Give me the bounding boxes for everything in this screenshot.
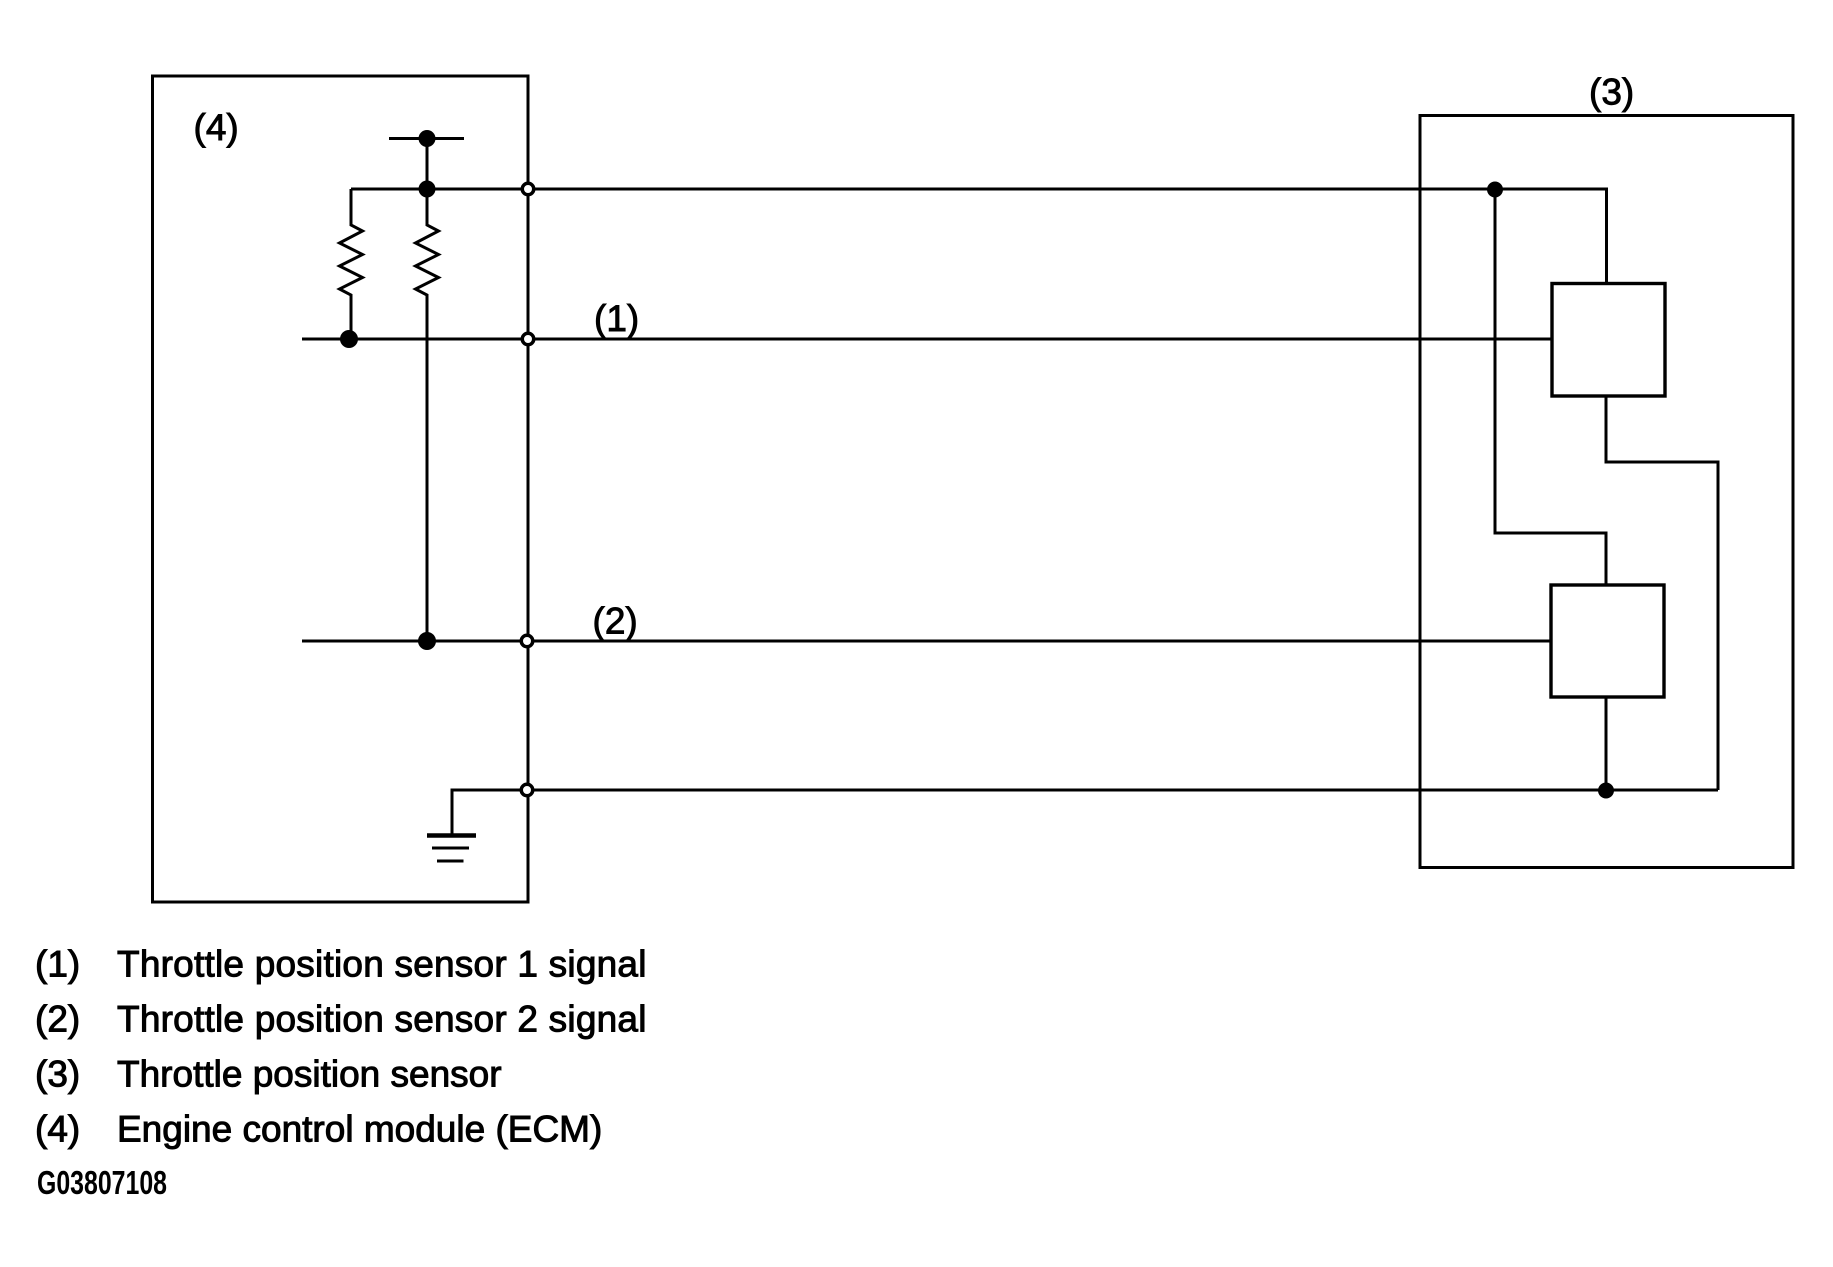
svg-text:Throttle position sensor 2 sig: Throttle position sensor 2 signal (117, 999, 647, 1040)
connector pin circle signal 1 (522, 333, 534, 345)
svg-text:Engine control module (ECM): Engine control module (ECM) (117, 1109, 602, 1150)
wire signal 1 (302, 338, 1552, 341)
wire Vref stub vertical (426, 139, 429, 190)
svg-text:(4): (4) (194, 107, 239, 148)
sensor element 2 square (1551, 585, 1664, 697)
wire Vref stub (389, 137, 464, 140)
junction dot Vref (419, 181, 436, 198)
wire sensor 1 bottom (1606, 396, 1718, 790)
connector pin circle Vref (522, 183, 534, 195)
connector pin circle ground (521, 784, 533, 796)
sensor element 1 square (1552, 284, 1665, 397)
wire Vref horizontal (351, 189, 1607, 284)
svg-text:(3): (3) (35, 1054, 80, 1095)
svg-text:Throttle position sensor: Throttle position sensor (117, 1054, 502, 1095)
wire ground (527, 789, 1718, 792)
connector pin circle signal 2 (521, 635, 533, 647)
wire sensor 2 bottom (1605, 697, 1608, 790)
junction dot Vref TPS (1487, 182, 1503, 198)
ground symbol (427, 836, 476, 862)
svg-text:(1): (1) (35, 944, 80, 985)
wire ground branch (452, 790, 527, 835)
svg-text:(2): (2) (35, 999, 80, 1040)
TPS box U3 (1420, 116, 1793, 868)
svg-text:(1): (1) (594, 298, 639, 339)
svg-text:(2): (2) (593, 601, 638, 642)
junction dot R1 to signal 1 (340, 330, 358, 348)
svg-text:Throttle position sensor 1 sig: Throttle position sensor 1 signal (117, 944, 647, 985)
wire signal 2 (302, 640, 1551, 643)
wire jog to sensor 2 (1495, 190, 1606, 586)
junction dot ground TPS (1598, 783, 1614, 799)
junction dot R2 to signal 2 (418, 632, 436, 650)
ECM box U4 (153, 76, 529, 902)
svg-text:(4): (4) (35, 1109, 80, 1150)
resistor R2 (416, 189, 439, 641)
svg-text:(3): (3) (1589, 72, 1634, 113)
svg-text:G03807108: G03807108 (37, 1164, 167, 1201)
junction dot stub (419, 130, 436, 147)
resistor R1 (340, 189, 363, 339)
